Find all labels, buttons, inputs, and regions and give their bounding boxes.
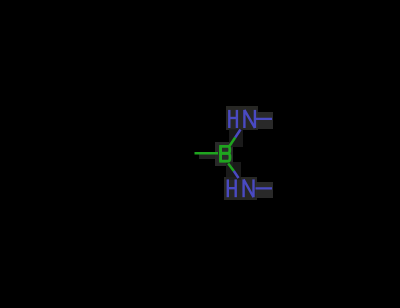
atom label N of top NH xyxy=(244,110,255,128)
bond B-N1 blue half xyxy=(235,130,240,138)
bond B-N2 blue half xyxy=(234,171,239,178)
atom label N of bottom NH xyxy=(244,179,254,197)
bond N1-C (blue half) xyxy=(255,118,272,120)
artifact block behind bottom HN label xyxy=(224,177,257,200)
atom label H of bottom NH xyxy=(228,179,236,197)
bond B-N1 green half xyxy=(230,138,236,147)
bond N2-C (blue half) xyxy=(256,187,273,189)
artifact block along B-N1 diagonal xyxy=(229,129,243,147)
atom label B (boron) xyxy=(221,146,230,161)
artifact block along B-N2 diagonal xyxy=(226,162,241,180)
artifact block behind B label xyxy=(215,142,233,166)
artifact block behind top HN label xyxy=(226,106,258,130)
artifact block behind bottom N-C bond xyxy=(256,182,273,198)
artifact block under phenyl-B bond xyxy=(199,154,218,159)
bond B-N2 green half xyxy=(228,164,234,172)
atom label H of top NH xyxy=(229,110,237,128)
artifact block behind top N-C bond xyxy=(256,112,273,129)
bond phenyl-B (green half) xyxy=(195,152,219,155)
